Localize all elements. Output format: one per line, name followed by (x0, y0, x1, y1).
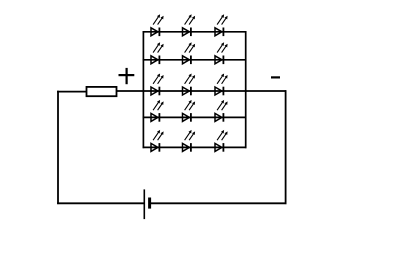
wire: right LED bus (245, 31, 247, 148)
LED D8 (183, 74, 196, 96)
label - (271, 76, 280, 78)
wire: LED row 2 (143, 59, 247, 61)
LED D13 (151, 130, 164, 152)
wire: LED row 1 (143, 31, 247, 33)
wire: left LED bus (142, 31, 144, 148)
wire: battery to bottom right (150, 202, 287, 204)
LED D4 (151, 42, 164, 64)
LED D12 (215, 100, 228, 122)
wire: right vertical (285, 90, 287, 204)
wire: LED row 4 (143, 116, 247, 118)
LED D9 (215, 74, 228, 96)
LED D3 (215, 14, 228, 36)
wire: left vertical from resistor level down to bottom (57, 91, 59, 204)
LED D10 (151, 100, 164, 122)
wire: resistor to LED matrix row 3 through to right corner (117, 90, 287, 92)
label + (119, 68, 135, 84)
LED D2 (183, 14, 196, 36)
LED D1 (151, 14, 164, 36)
battery BT1 negative plate (short thick) (148, 198, 151, 209)
LED D11 (183, 100, 196, 122)
wire: bottom left to battery (57, 202, 144, 204)
wire: LED row 5 (143, 146, 247, 148)
LED D14 (183, 130, 196, 152)
battery BT1 positive plate (long) (143, 189, 145, 219)
LED D6 (215, 42, 228, 64)
LED D7 (151, 74, 164, 96)
LED D15 (215, 130, 228, 152)
wire: top-left horizontal to resistor (57, 91, 87, 93)
LED D5 (183, 42, 196, 64)
resistor R1 (87, 87, 117, 96)
